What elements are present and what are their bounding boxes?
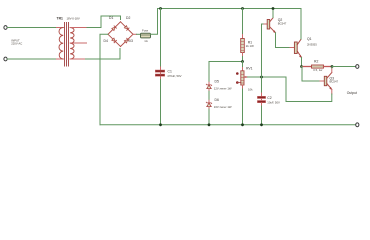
node dot top rail / Q2	[272, 7, 275, 10]
svg-text:12V zener 1W: 12V zener 1W	[214, 87, 232, 91]
svg-text:220V AC: 220V AC	[11, 42, 22, 46]
svg-text:Output: Output	[347, 91, 357, 95]
resistor R2	[312, 65, 324, 68]
svg-text:16V zener 1W: 16V zener 1W	[214, 105, 232, 109]
node dot top rail / R1	[241, 7, 244, 10]
svg-text:1A: 1A	[144, 39, 148, 43]
RV1 top wire	[242, 62, 244, 68]
svg-text:D4: D4	[104, 39, 108, 43]
output terminal bottom	[356, 123, 359, 127]
svg-text:D2: D2	[126, 16, 130, 20]
wire input top to primary	[7, 27, 56, 29]
wire D6 to ground rail	[208, 109, 210, 125]
svg-text:2k 1W: 2k 1W	[246, 44, 254, 48]
wire D5 to D6	[208, 91, 210, 100]
top rail	[158, 8, 302, 10]
wire bridge plus to fuse	[133, 33, 137, 35]
Q3 collector wire up to output	[331, 68, 333, 72]
secondary center tap stub	[70, 42, 86, 44]
wire C2 node up to Q2 base	[262, 24, 265, 77]
secondary top tap wire	[70, 27, 87, 29]
bridge rectifier arms	[108, 22, 133, 47]
R1 top wire	[242, 9, 244, 35]
node dot C1 / ground rail	[159, 123, 162, 126]
svg-text:C1: C1	[168, 69, 172, 73]
svg-text:BC547: BC547	[278, 21, 287, 25]
zener column wire from node	[208, 62, 210, 83]
zener D5	[206, 82, 211, 91]
Q1 emitter wire down	[301, 58, 303, 67]
svg-text:C2: C2	[267, 96, 271, 100]
node dot wiper / C2 column	[260, 76, 263, 79]
Q3 base wire from R2 left node	[302, 67, 321, 82]
C2 bottom wire	[261, 103, 263, 106]
RV1 bottom wire	[242, 85, 244, 89]
svg-text:Fuse: Fuse	[142, 28, 149, 32]
C1 column wire	[160, 9, 162, 68]
svg-text:TR1: TR1	[57, 17, 64, 21]
diode D3	[124, 38, 129, 43]
resistor R1	[241, 39, 245, 53]
svg-text:BC547: BC547	[330, 80, 339, 84]
transistor Q1	[294, 39, 301, 57]
wire input bottom to primary	[7, 58, 56, 60]
wiper line to C2 node	[248, 76, 287, 78]
R2 left wire	[302, 66, 312, 68]
transistor Q3	[324, 73, 332, 90]
C1 bottom wire	[160, 76, 162, 79]
diode D4	[112, 38, 117, 43]
svg-text:D6: D6	[215, 98, 219, 102]
input terminal J2 bottom	[4, 57, 7, 61]
output line top	[332, 66, 356, 68]
svg-text:RV1: RV1	[246, 67, 253, 71]
svg-text:D3: D3	[129, 39, 133, 43]
svg-text:D1: D1	[109, 16, 113, 20]
output terminal top	[356, 65, 359, 69]
diode D1	[112, 26, 117, 31]
svg-text:10uF, 50V: 10uF, 50V	[267, 101, 280, 105]
wire bridge minus to ground rail	[100, 34, 108, 125]
wire fuse to top rail	[151, 9, 158, 35]
fuse FU1	[141, 33, 151, 38]
svg-text:18V-0-18V: 18V-0-18V	[67, 16, 80, 20]
diode D2	[124, 26, 129, 31]
zener D6	[206, 100, 211, 109]
svg-text:0.5, 1w: 0.5, 1w	[313, 68, 323, 72]
svg-text:D5: D5	[215, 80, 219, 84]
Q3 emitter wire down and left to wiper line	[331, 90, 333, 95]
potentiometer RV1	[236, 71, 248, 85]
node dot R2 / Q3 collector	[331, 65, 334, 68]
Q2 collector wire to top rail	[272, 9, 274, 18]
ground bottom rail	[100, 124, 356, 126]
R2 right wire	[324, 66, 333, 68]
node dot RV1 / ground	[241, 123, 244, 126]
svg-text:2N3055: 2N3055	[307, 43, 317, 47]
node dot Q1 emitter / R2	[300, 65, 303, 68]
transistor Q2	[267, 18, 275, 33]
transformer TR1	[59, 23, 74, 67]
Q2 emitter wire to Q1 base	[276, 33, 291, 48]
R1 bottom wire	[242, 53, 244, 57]
input terminal J1 top	[4, 26, 7, 30]
node dot R1 / zener line	[241, 60, 244, 63]
svg-text:470uF, 50V: 470uF, 50V	[167, 74, 181, 78]
node dot top rail / C1	[159, 7, 162, 10]
secondary bottom tap wire	[70, 58, 85, 60]
capacitor C2	[257, 96, 265, 102]
wire node to R1 bottom	[209, 61, 243, 63]
svg-text:10k: 10k	[248, 88, 253, 92]
wire C2 node down to C2	[261, 77, 263, 93]
svg-text:R2: R2	[314, 60, 318, 64]
node dot C2 / ground	[260, 123, 263, 126]
Q1 collector wire from top rail	[300, 9, 302, 40]
svg-text:Q1: Q1	[307, 37, 312, 41]
capacitor C1	[155, 70, 164, 76]
node dot zener / ground	[208, 123, 211, 126]
